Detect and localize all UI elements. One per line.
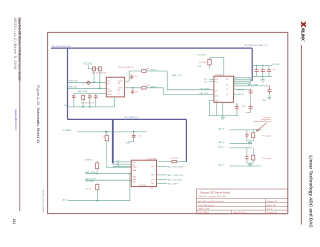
junction dot agnd (97, 200, 99, 202)
junction dot vcc rail 2 (133, 131, 135, 133)
svg-text:INB: INB (118, 90, 121, 92)
wire bus1 drop to bus2 (67, 48, 69, 119)
svg-text:ADC_MISO (N10): ADC_MISO (N10) (168, 165, 183, 168)
wire ADC out 4 (157, 182, 168, 184)
header rule (vertical) (300, 45, 303, 225)
svg-text:1uF: 1uF (273, 70, 276, 72)
svg-text:Figure A-10: Schematic Sheet 1: Figure A-10: Schematic Sheet 11 (36, 85, 40, 143)
svg-text:VCC3V3: VCC3V3 (272, 64, 281, 66)
svg-text:CS: CS (107, 88, 109, 90)
svg-text:VB: VB (226, 85, 228, 87)
resistor RL2 (252, 155, 255, 160)
junction dot caprow1 (256, 65, 257, 66)
svg-text:GND: GND (198, 66, 203, 68)
svg-text:4: 4 (234, 85, 235, 87)
wire bus2 end drop (185, 119, 187, 161)
capacitor C54 (130, 75, 133, 79)
ground symbol load B (248, 163, 251, 167)
junction dot pullup2 (99, 88, 101, 90)
svg-text:SDI: SDI (132, 165, 135, 167)
wire amp CS stub (74, 93, 107, 94)
svg-text:AWG_VREF: AWG_VREF (248, 83, 259, 86)
svg-text:DAC_C: DAC_C (218, 145, 225, 148)
svg-text:R72 1K: R72 1K (86, 188, 93, 190)
wire pullup drop 2 (99, 71, 101, 89)
footer rule (vertical) (18, 18, 21, 212)
svg-text:C54: C54 (134, 76, 137, 78)
svg-text:LTC1407A: LTC1407A (138, 184, 145, 187)
wire dac right pin 2 (234, 79, 251, 81)
svg-text:3: 3 (234, 88, 235, 90)
wire R72 stubs (96, 183, 98, 201)
svg-text:SCK: SCK (215, 79, 218, 81)
svg-text:Date: 3/08/06: Date: 3/08/06 (198, 211, 209, 214)
wire amp outA run (146, 71, 214, 90)
svg-text:C49: C49 (138, 136, 141, 138)
wire R73 bottom (96, 169, 98, 174)
ground symbol C63 (268, 94, 272, 100)
xilinx logo mark (300, 21, 305, 43)
capacitor C46 (72, 95, 75, 99)
svg-text:R78 10K: R78 10K (199, 62, 207, 64)
svg-text:INA: INA (118, 82, 122, 85)
svg-text:®: ® (303, 41, 306, 43)
svg-text:SDI: SDI (107, 83, 110, 85)
svg-text:D2: D2 (83, 83, 85, 85)
svg-text:SDI: SDI (117, 163, 120, 165)
svg-text:SPI_MOSI: SPI_MOSI (200, 88, 209, 90)
wire pullup drop 1 (93, 71, 95, 83)
junction dot gnd riser (129, 173, 130, 174)
svg-text:SCK: SCK (107, 80, 111, 82)
wire dac right rail (250, 78, 252, 84)
wire VCC rail ADC (77, 131, 147, 133)
svg-text:VDD: VDD (151, 175, 155, 177)
capacitor C64 (235, 105, 239, 111)
svg-text:SPI_MOSI (T4): SPI_MOSI (T4) (124, 117, 139, 119)
capacitor C55 (131, 90, 134, 94)
wire VCC stub (89, 65, 100, 69)
svg-text:CH1: CH1 (151, 183, 154, 185)
wire dac load A (229, 129, 261, 131)
resistor R68 (142, 70, 146, 73)
svg-text:Author: WF: Author: WF (267, 204, 277, 207)
svg-text:SDI: SDI (215, 81, 218, 83)
wire dac right pin 1 (234, 77, 251, 79)
svg-text:OUTA: OUTA (118, 79, 123, 82)
svg-text:AMP_SDI: AMP_SDI (69, 86, 77, 89)
wire dac left stub 1 (209, 78, 214, 80)
junction dot gnd2 (89, 106, 91, 108)
wire amp outA (125, 71, 142, 82)
svg-text:VCC3V3: VCC3V3 (86, 181, 95, 183)
svg-text:Spartan 3E Starter Board: Spartan 3E Starter Board (200, 190, 231, 194)
svg-text:Linear Technology ADC and DAC: Linear Technology ADC and DAC (308, 156, 313, 229)
capacitor C48 (94, 94, 97, 99)
title block hline 4 (197, 209, 288, 211)
svg-text:CH0: CH0 (151, 179, 154, 181)
wire ADC vina (85, 173, 131, 175)
resistor R69 (142, 87, 146, 90)
svg-text:CS: CS (215, 90, 217, 92)
svg-text:VC: VC (226, 89, 229, 91)
SPI-BUS-NETS (51, 48, 252, 163)
wire dac bottom gnd (209, 100, 238, 115)
svg-text:CONV: CONV (132, 167, 136, 169)
svg-text:VREF_A: VREF_A (237, 88, 245, 91)
junction dot R70 rail (106, 131, 108, 133)
svg-text:AGND: AGND (107, 93, 112, 96)
svg-text:ADCs A/D and D/A Converters: ADCs A/D and D/A Converters (198, 200, 224, 203)
wire bus1 top horizontal (51, 47, 252, 49)
wire ADC left fan 1 (113, 161, 131, 163)
svg-text:R69: R69 (147, 85, 150, 87)
wire bus1 end drop to DAC (251, 48, 253, 81)
svg-text:Engineer: JH: Engineer: JH (267, 201, 278, 203)
wire C65 stubs (237, 94, 251, 112)
wire amp SPI input 2 (68, 87, 106, 89)
svg-text:SCK: SCK (204, 79, 207, 81)
title block hline 2 (197, 202, 288, 204)
svg-text:GND: GND (126, 143, 131, 145)
wire load B stubs (247, 148, 253, 163)
svg-text:VA: VA (226, 78, 228, 81)
resistor RL1 (252, 133, 255, 138)
svg-text:VREF: VREF (132, 179, 136, 181)
resistor R73 (95, 163, 98, 169)
svg-text:SHDN: SHDN (107, 91, 112, 93)
svg-text:AD_G: AD_G (63, 198, 69, 201)
svg-text:GND: GND (132, 181, 136, 183)
wire amp ground rail (68, 97, 115, 107)
svg-text:ADC_VREF: ADC_VREF (168, 182, 179, 185)
svg-text:DAC_A: DAC_A (218, 127, 225, 130)
ground symbol dac bottom (221, 116, 225, 120)
svg-text:V+: V+ (118, 93, 120, 95)
wire dac load B (229, 142, 252, 144)
wire bus2 drop foot (182, 161, 186, 163)
title block hline 1 (197, 197, 288, 199)
DAC-SECTION (182, 54, 280, 166)
svg-text:VINA: VINA (132, 169, 136, 172)
junction dot vina (96, 173, 97, 174)
resistor R65 (92, 67, 95, 71)
title block outline (197, 189, 288, 214)
svg-text:RC Loads: RC Loads (263, 136, 271, 138)
wire bus2 horizontal (68, 118, 187, 120)
svg-text:R71 10K: R71 10K (171, 158, 179, 160)
wire cap row top rail (252, 65, 272, 68)
svg-text:CLR: CLR (215, 95, 219, 97)
svg-text:17x11 SIZE Starter: 17x11 SIZE Starter (198, 204, 214, 207)
svg-text:GND: GND (64, 105, 69, 107)
capacitor C63 (267, 86, 271, 94)
svg-text:XILINX: XILINX (300, 28, 305, 42)
capacitor C49 (132, 134, 136, 139)
svg-text:8: 8 (234, 77, 235, 79)
svg-text:AMP_OUT: AMP_OUT (172, 74, 182, 77)
wire bus drop to ADC (112, 119, 114, 163)
resistor R78 (208, 59, 211, 65)
svg-text:DAC_B: DAC_B (218, 141, 225, 144)
svg-text:SCK: SCK (117, 161, 120, 163)
svg-text:UG230 (v1.0) March 9, 2006: UG230 (v1.0) March 9, 2006 (13, 18, 17, 70)
wire R78 top run (210, 58, 224, 77)
svg-text:LTC2624: LTC2624 (215, 74, 223, 76)
svg-text:7: 7 (234, 79, 235, 81)
wire dac load D (229, 165, 261, 167)
svg-text:VD: VD (226, 94, 229, 96)
svg-text:ADC_CONV (P11): ADC_CONV (P11) (168, 174, 184, 177)
wire dac out C (234, 93, 237, 95)
svg-text:VCC3V3: VCC3V3 (197, 54, 206, 56)
wire ADC left fan 3 (113, 165, 131, 167)
svg-text:U14: U14 (150, 188, 153, 190)
wire R71 link (158, 161, 186, 163)
wire amp outB run (146, 88, 214, 95)
svg-text:6: 6 (234, 81, 235, 83)
svg-text:SDI: SDI (204, 81, 207, 83)
capacitor C62 (249, 89, 253, 94)
svg-text:SCK: SCK (132, 163, 135, 165)
svg-text:5: 5 (234, 83, 235, 85)
wire ADC out 1 (157, 165, 168, 167)
ground symbol load A (248, 141, 251, 145)
capacitor CL1 (245, 132, 248, 138)
svg-text:SPI_SCK (U16) SCK: SPI_SCK (U16) SCK (52, 46, 72, 48)
svg-text:CNV: CNV (117, 165, 120, 167)
wire ADC vinb (85, 179, 131, 181)
component J1 marker (87, 81, 91, 85)
title block vline right col (264, 198, 266, 214)
annotation arrow (256, 123, 266, 131)
svg-text:(IC) LTC6912-1: (IC) LTC6912-1 (118, 67, 134, 69)
junction dot pullup1 (93, 82, 95, 84)
wire load A stubs (247, 130, 253, 141)
resistor R70 (105, 135, 108, 141)
svg-text:DAC_CLR: DAC_CLR (200, 92, 209, 95)
svg-text:SDO: SDO (151, 166, 155, 168)
svg-text:VCCAMP: VCCAMP (62, 129, 72, 132)
svg-text:151: 151 (12, 219, 16, 225)
svg-text:ADC_SCK (U16): ADC_SCK (U16) (168, 179, 183, 182)
svg-text:C55: C55 (135, 92, 138, 94)
wire dac left stub 2 (209, 80, 214, 82)
svg-text:RC Loads: RC Loads (263, 158, 271, 160)
title block hline 3 (197, 206, 288, 208)
wire dac right pin 3 (234, 81, 251, 83)
resistor R67 (82, 95, 85, 99)
capacitor C47 (88, 94, 91, 99)
wire amp bottom stubs (74, 99, 96, 107)
op-amp U13 LTC6912-1 (106, 77, 124, 97)
wire amp SPI input 1 (68, 81, 106, 83)
wire ADC out 2 (157, 174, 168, 176)
svg-text:VCC3V3: VCC3V3 (83, 64, 93, 66)
TITLE-BLOCK (197, 189, 288, 214)
svg-text:AMP_SCK: AMP_SCK (69, 80, 78, 83)
junction dot caprow2 (262, 65, 263, 66)
svg-text:Compensated Reference: Compensated Reference (253, 120, 272, 123)
svg-text:LTC1407A-1: LTC1407A-1 (147, 158, 158, 161)
wire dac out B (234, 88, 251, 90)
capacitor CL2 (245, 155, 248, 161)
svg-text:Xilinx Inc., Copyright 2005, 2: Xilinx Inc., Copyright 2005, 2006 (199, 195, 226, 198)
wire VREF stub (96, 161, 98, 163)
svg-text:VINB: VINB (132, 176, 136, 178)
wire caps ground rail (252, 72, 272, 76)
svg-text:OUTB: OUTB (118, 88, 122, 90)
capacitor C61 (267, 69, 271, 73)
svg-text:2: 2 (234, 93, 235, 95)
wire R70 stubs (107, 132, 131, 168)
svg-text:UG230_c10_13_030906: UG230_c10_13_030906 (41, 190, 43, 213)
svg-text:VREF_D: VREF_D (85, 159, 93, 161)
wire C49 stub (129, 132, 134, 142)
wire dac out A (234, 85, 270, 87)
svg-text:Rev: D: Rev: D (267, 208, 273, 210)
junction dot vcc rail (105, 131, 107, 133)
svg-text:CAGE CODE: CAGE CODE (198, 208, 210, 211)
ground symbol caps (261, 76, 265, 82)
adc U14 LTC1407A-1 (131, 160, 156, 186)
wire dac load C (229, 147, 252, 149)
capacitor C65 (249, 105, 253, 111)
junction dot outB (132, 87, 134, 89)
capacitor C59 (254, 69, 258, 73)
wire dac left in 5 (209, 99, 214, 101)
wire adc ground run (68, 174, 130, 201)
svg-text:www.xilinx.com: www.xilinx.com (14, 110, 18, 131)
svg-text:Drawing 1.11: Drawing 1.11 (267, 212, 277, 214)
svg-text:Sheet 11 of 14: Sheet 11 of 14 (234, 211, 246, 214)
wire dac right pin 4 (234, 83, 251, 85)
junction dot gnd1 (82, 106, 84, 108)
capacitor C60 (261, 69, 265, 73)
svg-text:R68: R68 (147, 68, 150, 70)
wire ADC out 3 (157, 179, 168, 181)
schematic frame (48, 32, 288, 213)
resistor R71 (172, 161, 177, 163)
wire R78 bottom stub (209, 65, 211, 68)
wire ADC left fan 2 (113, 163, 131, 165)
wire amp outB (125, 87, 142, 89)
svg-text:DAC_D: DAC_D (218, 164, 225, 167)
ADC-SECTION (62, 129, 186, 202)
svg-text:C64: C64 (242, 106, 245, 108)
title block vline sheet cell (231, 210, 233, 214)
AMP-SECTION (64, 64, 214, 108)
svg-text:GND: GND (262, 100, 267, 102)
svg-text:SPI_MOSI (T4) DAC_CS: SPI_MOSI (T4) DAC_CS (244, 44, 268, 47)
resistor R66 (98, 67, 101, 71)
svg-text:AMP_SHDN: AMP_SHDN (78, 90, 88, 93)
svg-text:VREF_B: VREF_B (237, 94, 245, 96)
dac U15 LTC2624 (214, 76, 234, 102)
resistor R72 (96, 184, 99, 189)
svg-text:AMP_OUTA: AMP_OUTA (85, 171, 96, 174)
